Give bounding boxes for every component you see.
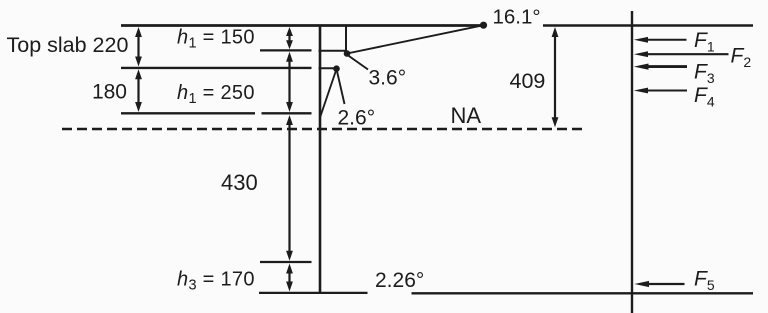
force arrow F2 [634,51,729,57]
node dot 2.6 [333,65,340,72]
node dot 16.1 [480,22,487,29]
dimension arrow 409 [552,27,559,127]
svg-text:NA: NA [451,103,482,128]
svg-text:Top slab 220: Top slab 220 [7,33,129,57]
neutral axis dashed line [62,128,583,131]
line bottom of slab web [319,67,338,69]
pointer to 3.6 label [348,55,369,70]
svg-text:3.6°: 3.6° [369,67,407,90]
line bottom left [259,292,368,294]
strain line 2.6 [320,69,337,118]
line top of h3 [260,261,312,263]
short vertical line slab strain [345,26,347,53]
svg-text:2.26°: 2.26° [375,269,424,292]
svg-text:430: 430 [221,170,258,195]
dimension arrow 180 [135,69,142,112]
pointer to 2.6 label [337,69,345,104]
line bottom right [412,292,754,294]
node dot 3.6 [344,50,351,57]
dimension arrow h1 150 [286,27,293,49]
strain line 16.1 [347,25,484,53]
line under h1=250 [121,112,312,114]
right vertical line [631,11,633,313]
line under h1=150 web [319,50,348,52]
dimension arrow 430 [286,115,293,261]
force arrow F1 [634,37,687,43]
svg-text:2.6°: 2.6° [338,107,376,130]
svg-text:16.1°: 16.1° [493,6,541,29]
svg-text:180: 180 [92,81,127,104]
svg-text:409: 409 [510,69,546,93]
dimension arrow h1 250 [286,52,293,112]
web vertical line [319,25,322,294]
line top right segment [543,24,753,26]
line under h1=150 left [260,49,312,51]
dimension arrow 220 [135,27,142,67]
force arrow F4 [634,88,687,94]
line top of slab [121,24,481,27]
line bottom of slab [121,67,312,69]
force arrow F3 [634,64,687,70]
dimension arrow h3 170 [286,264,293,292]
force arrow F5 [634,281,684,287]
